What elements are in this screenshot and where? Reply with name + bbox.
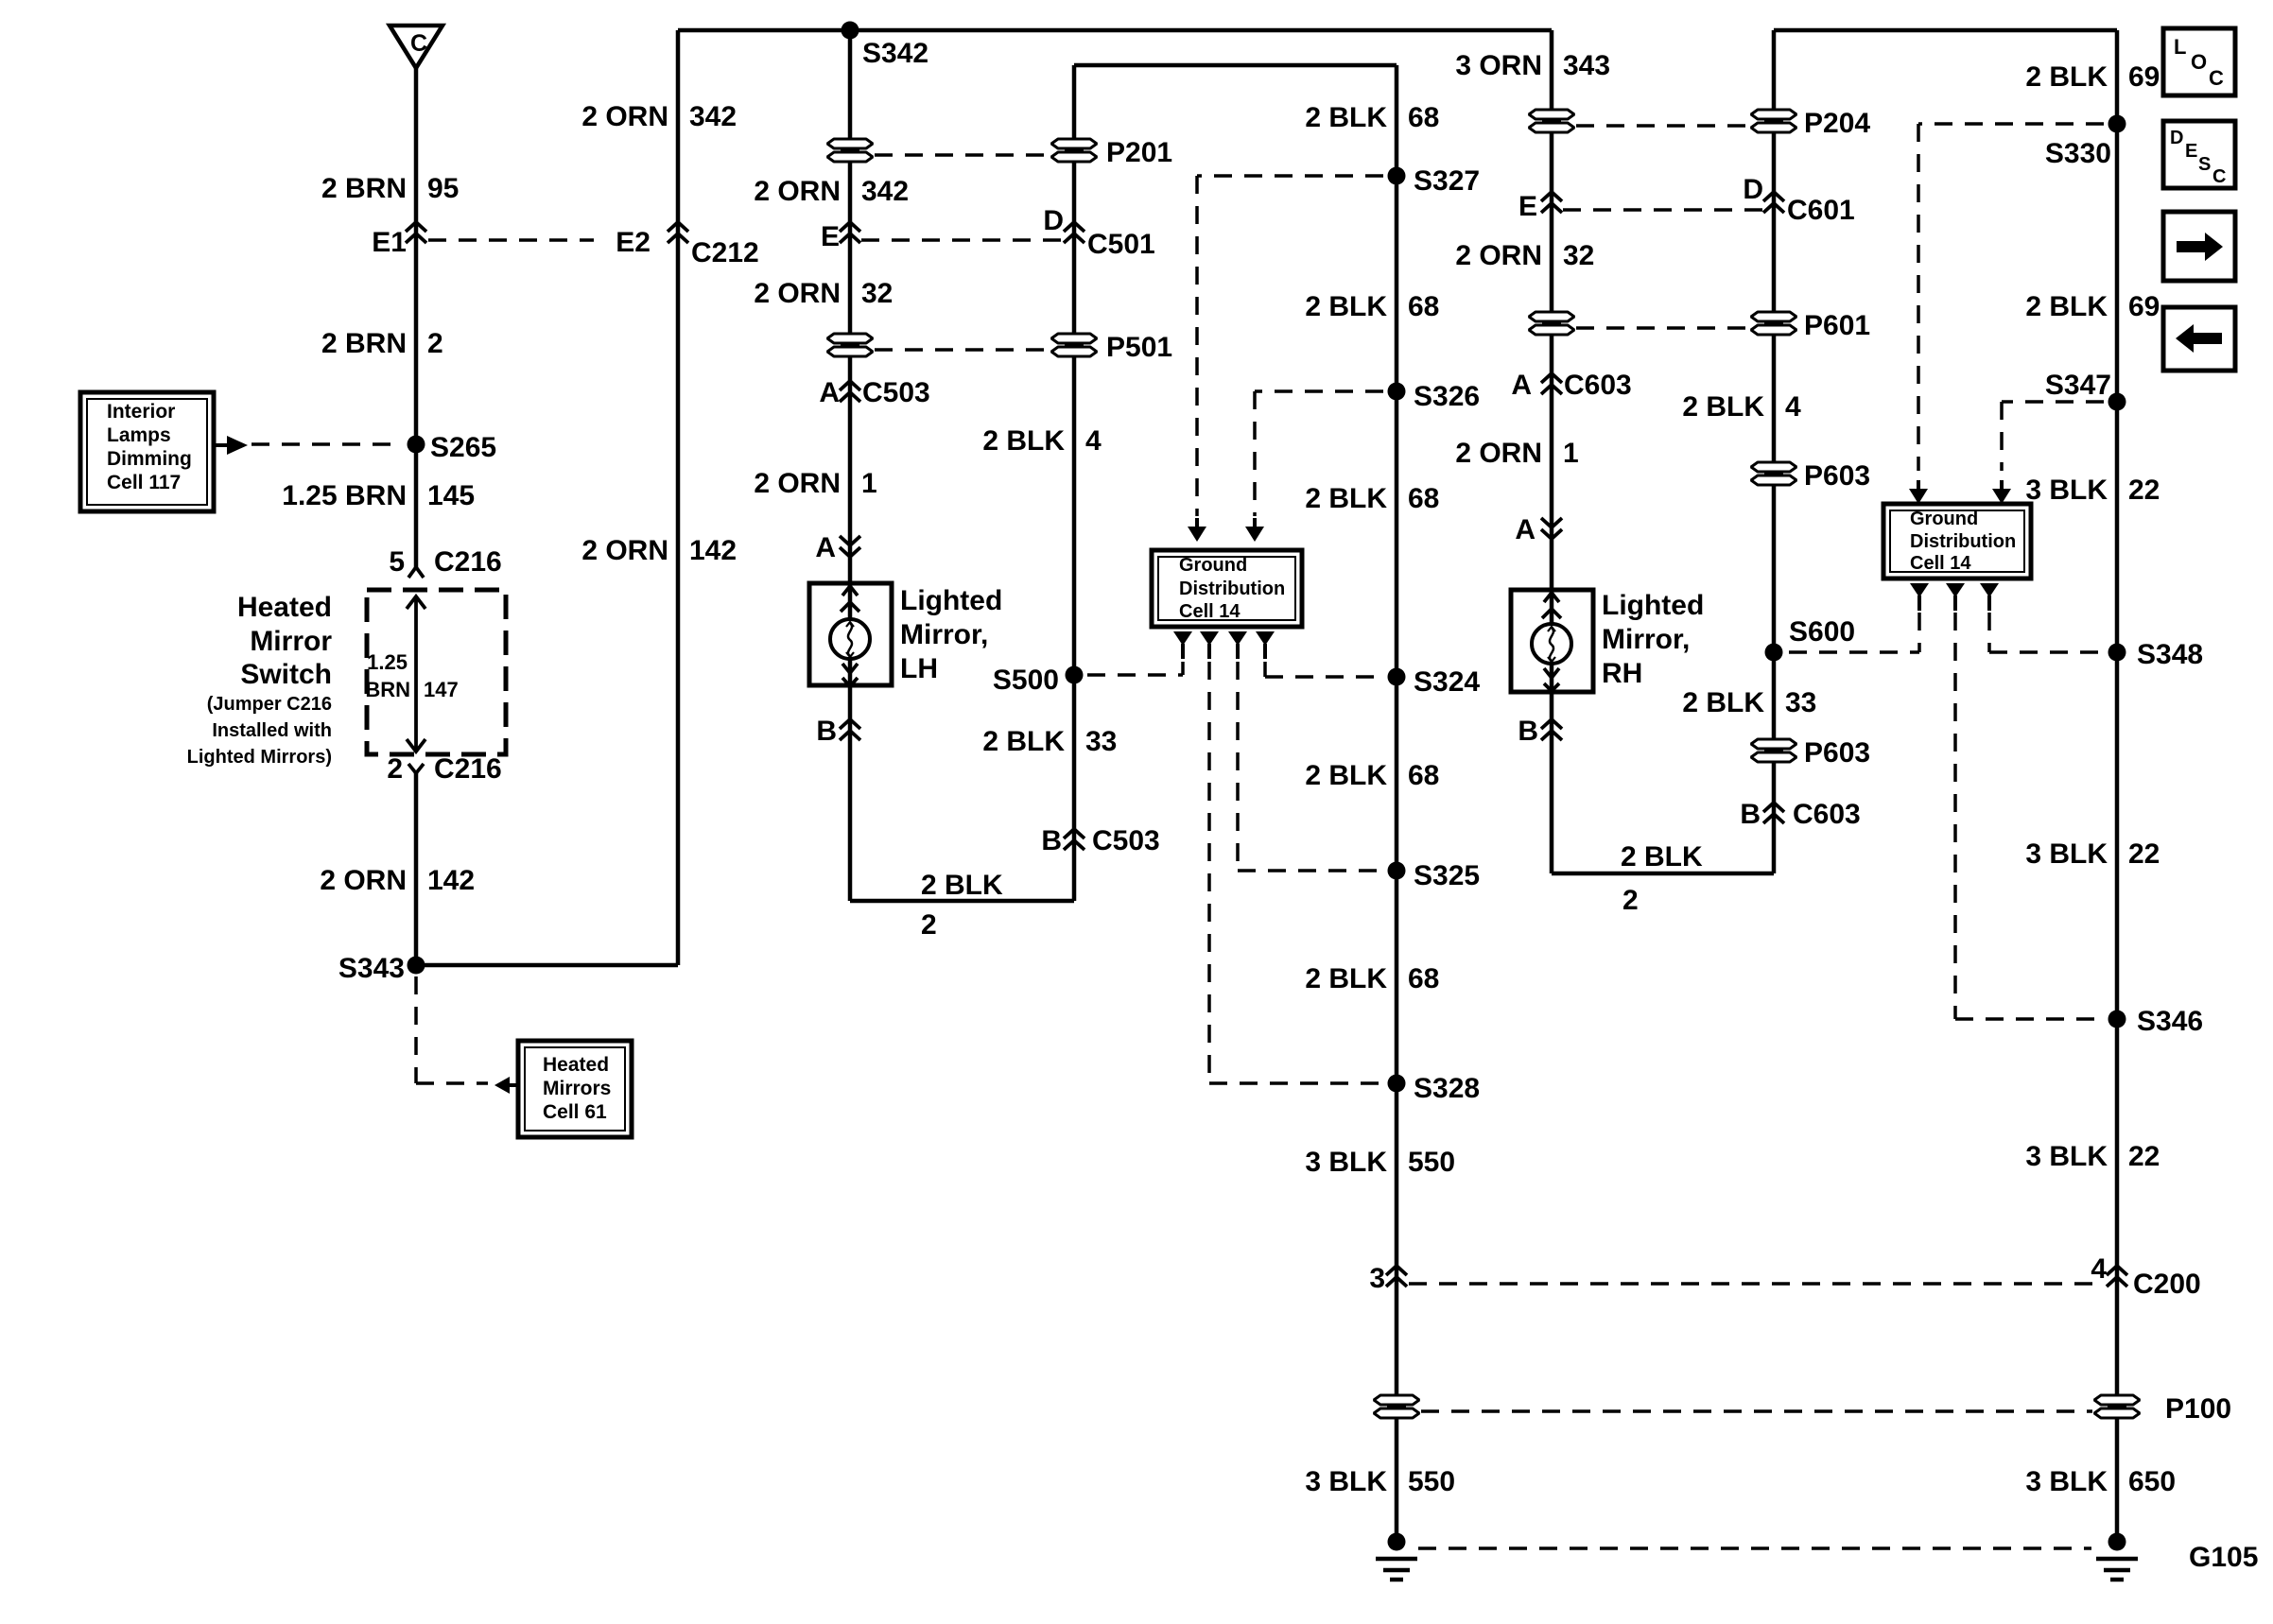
svg-text:E: E xyxy=(2185,141,2197,162)
svg-text:22: 22 xyxy=(2128,475,2160,506)
svg-text:2 ORN: 2 ORN xyxy=(1455,240,1542,271)
inline connector P100 right half xyxy=(2094,1395,2140,1418)
dashed link E to D C501 xyxy=(861,238,1061,242)
svg-text:142: 142 xyxy=(689,535,737,566)
svg-text:2 BLK: 2 BLK xyxy=(2025,61,2108,93)
svg-text:A: A xyxy=(819,377,840,408)
svg-text:P603: P603 xyxy=(1804,737,1870,769)
svg-text:C200: C200 xyxy=(2133,1269,2201,1300)
svg-text:B: B xyxy=(1740,799,1761,830)
svg-text:33: 33 xyxy=(1785,687,1816,718)
svg-text:S328: S328 xyxy=(1414,1073,1480,1104)
top bus wire right xyxy=(1774,28,2117,33)
svg-text:68: 68 xyxy=(1408,102,1439,133)
top link X4 to X5 xyxy=(1074,63,1397,68)
Ground Distribution Cell 14 box left xyxy=(1152,550,1302,627)
inline connector P603 xyxy=(1751,462,1796,485)
splice S600 xyxy=(1765,644,1783,662)
dashed lead to S265 xyxy=(252,442,403,446)
svg-text:147: 147 xyxy=(424,678,459,701)
svg-text:2 BLK: 2 BLK xyxy=(1305,483,1387,514)
svg-text:D: D xyxy=(2170,128,2183,148)
svg-text:2 ORN: 2 ORN xyxy=(320,865,407,896)
dashed link P100 xyxy=(1421,1409,2092,1413)
svg-text:Switch: Switch xyxy=(240,659,332,690)
svg-text:342: 342 xyxy=(861,176,909,207)
connector C216 pin 2 fork xyxy=(408,764,424,773)
dashed link C200 xyxy=(1409,1282,2105,1286)
dashed link P501 xyxy=(875,348,1048,352)
svg-text:22: 22 xyxy=(2128,838,2160,870)
svg-text:95: 95 xyxy=(427,173,459,204)
svg-text:32: 32 xyxy=(1563,240,1594,271)
svg-text:142: 142 xyxy=(427,865,475,896)
svg-text:2 BLK: 2 BLK xyxy=(1305,102,1387,133)
dashed from S326 xyxy=(1255,389,1383,393)
svg-text:2 BRN: 2 BRN xyxy=(321,328,407,359)
splice S346 xyxy=(2108,1011,2126,1028)
svg-text:2 BLK: 2 BLK xyxy=(921,870,1003,901)
svg-text:1.25: 1.25 xyxy=(367,650,408,674)
svg-text:22: 22 xyxy=(2128,1141,2160,1172)
Y arrows below left ground box xyxy=(1173,631,1192,659)
svg-text:Cell 61: Cell 61 xyxy=(543,1101,607,1123)
svg-text:E: E xyxy=(1518,191,1537,222)
inline connector P100 left half xyxy=(1374,1395,1419,1418)
dashed to S346 xyxy=(1953,613,1957,1019)
svg-text:Lighted Mirrors): Lighted Mirrors) xyxy=(187,747,332,768)
svg-text:C212: C212 xyxy=(691,237,759,268)
lamp symbol LH xyxy=(830,619,870,659)
svg-text:S: S xyxy=(2198,154,2211,175)
Lighted Mirror RH box xyxy=(1511,590,1593,692)
ground symbol left xyxy=(1376,1533,1417,1581)
splice S326 xyxy=(1388,383,1406,401)
svg-text:3 BLK: 3 BLK xyxy=(2025,1466,2108,1497)
splice S330 xyxy=(2108,115,2126,133)
inline connector P204 right half xyxy=(1751,110,1796,132)
svg-text:Mirror,: Mirror, xyxy=(1602,624,1690,655)
svg-text:4: 4 xyxy=(1085,425,1102,457)
connector C503 pin B xyxy=(1064,829,1084,850)
lamp symbol RH xyxy=(1532,624,1571,664)
svg-text:145: 145 xyxy=(427,480,475,511)
inline connector P601 right half xyxy=(1751,312,1796,335)
svg-text:3: 3 xyxy=(1369,1263,1385,1294)
svg-text:2 BLK: 2 BLK xyxy=(1621,841,1703,872)
svg-text:3 BLK: 3 BLK xyxy=(2025,1141,2108,1172)
svg-text:C: C xyxy=(2212,166,2226,187)
svg-text:S346: S346 xyxy=(2137,1006,2203,1037)
inline connector P201 right half xyxy=(1051,139,1097,162)
svg-text:S600: S600 xyxy=(1789,616,1855,648)
ground G105 xyxy=(2096,1533,2138,1581)
svg-text:B: B xyxy=(1041,825,1062,856)
dashed to S324 xyxy=(1263,662,1267,677)
svg-text:3 BLK: 3 BLK xyxy=(1305,1147,1387,1178)
wire 2 BLK 4/33 riser xyxy=(1072,65,1077,901)
svg-text:2 BLK: 2 BLK xyxy=(2025,291,2108,322)
jumper wire inside switch (double arrow) xyxy=(414,596,418,752)
off-page connector triangle C xyxy=(390,26,442,68)
svg-text:B: B xyxy=(816,716,837,747)
wire 2 ORN 342/32/1 down to Lighted Mirror LH xyxy=(848,30,853,901)
svg-text:2 BLK: 2 BLK xyxy=(1305,963,1387,994)
mirror connector pin B RH xyxy=(1541,719,1562,740)
svg-text:C601: C601 xyxy=(1787,195,1855,226)
svg-text:2 BLK: 2 BLK xyxy=(1305,291,1387,322)
svg-text:68: 68 xyxy=(1408,760,1439,791)
svg-text:(Jumper C216: (Jumper C216 xyxy=(207,694,332,715)
splice S324 xyxy=(1388,668,1406,686)
svg-text:P601: P601 xyxy=(1804,310,1870,341)
svg-text:S343: S343 xyxy=(338,953,405,984)
svg-text:68: 68 xyxy=(1408,963,1439,994)
Y arrows below right ground box xyxy=(1910,583,1929,611)
svg-text:C216: C216 xyxy=(434,546,502,578)
mirror connector pin A RH xyxy=(1541,518,1562,539)
mirror connector pin A xyxy=(840,536,860,557)
svg-text:Cell 14: Cell 14 xyxy=(1910,553,1971,574)
dashed to S348 xyxy=(1987,613,1991,652)
splice S265 xyxy=(408,436,425,454)
svg-text:C: C xyxy=(410,30,427,57)
connector C501 pin D xyxy=(1064,222,1084,243)
svg-text:2: 2 xyxy=(387,753,403,785)
dashed link P201 xyxy=(875,153,1048,157)
svg-text:S324: S324 xyxy=(1414,666,1480,698)
svg-text:C503: C503 xyxy=(1092,825,1160,856)
svg-text:Lighted: Lighted xyxy=(1602,590,1704,621)
svg-text:32: 32 xyxy=(861,278,893,309)
svg-text:P201: P201 xyxy=(1106,137,1172,168)
inline connector P204 left half xyxy=(1529,110,1574,132)
right arrow legend box xyxy=(2163,212,2235,281)
arrows into left ground box xyxy=(1188,518,1206,542)
svg-text:S347: S347 xyxy=(2045,370,2111,401)
svg-text:Ground: Ground xyxy=(1179,555,1247,576)
wire riser 2 ORN 342/142 xyxy=(676,30,681,965)
svg-text:1: 1 xyxy=(1563,438,1579,469)
svg-text:C501: C501 xyxy=(1087,229,1155,260)
svg-text:Mirror,: Mirror, xyxy=(900,619,988,650)
Ground Distribution Cell 14 box right xyxy=(1883,504,2031,579)
svg-text:550: 550 xyxy=(1408,1147,1455,1178)
arrows into right ground box xyxy=(1909,480,1928,504)
svg-text:69: 69 xyxy=(2128,291,2160,322)
Lighted Mirror LH box xyxy=(809,583,892,685)
svg-text:2 ORN: 2 ORN xyxy=(581,101,668,132)
inline connector P501 left half xyxy=(827,334,873,356)
svg-text:1.25 BRN: 1.25 BRN xyxy=(282,480,407,511)
svg-text:2 BLK: 2 BLK xyxy=(1682,687,1764,718)
svg-text:550: 550 xyxy=(1408,1466,1455,1497)
svg-text:B: B xyxy=(1518,716,1538,747)
svg-text:2 BRN: 2 BRN xyxy=(321,173,407,204)
wire S343 to right riser xyxy=(416,963,678,968)
svg-text:C603: C603 xyxy=(1793,799,1861,830)
svg-text:Ground: Ground xyxy=(1910,509,1978,529)
svg-text:E2: E2 xyxy=(616,227,651,258)
svg-text:2: 2 xyxy=(921,909,937,941)
dashed to S325 xyxy=(1236,662,1240,871)
splice S325 xyxy=(1388,862,1406,880)
DESC legend box xyxy=(2163,121,2235,188)
dashed from S327 xyxy=(1197,174,1383,178)
splice S328 xyxy=(1388,1075,1406,1093)
svg-text:C216: C216 xyxy=(434,753,502,785)
dashed S500 riser xyxy=(1181,662,1185,675)
svg-text:C: C xyxy=(2209,66,2224,90)
svg-text:1: 1 xyxy=(861,468,877,499)
svg-text:P501: P501 xyxy=(1106,332,1172,363)
svg-text:68: 68 xyxy=(1408,291,1439,322)
arrowhead to Heated Mirrors cell xyxy=(495,1077,510,1094)
inline connector P501 right half xyxy=(1051,334,1097,356)
wire 2 BLK 69 / 3 BLK 22 / 650 riser xyxy=(2115,30,2120,1533)
arrow from Interior Lamps box xyxy=(214,443,227,447)
svg-text:4: 4 xyxy=(2091,1253,2107,1285)
svg-text:LH: LH xyxy=(900,653,938,684)
svg-text:A: A xyxy=(1511,370,1532,401)
svg-text:A: A xyxy=(815,532,836,563)
connector C200 pin 4 xyxy=(2107,1266,2127,1287)
svg-text:C603: C603 xyxy=(1564,370,1632,401)
svg-text:L: L xyxy=(2174,35,2186,59)
connector C200 pin 3 xyxy=(1386,1266,1407,1287)
connector C503 pin A xyxy=(840,381,860,402)
mirror connector pin B xyxy=(840,719,860,740)
dashed link P204 xyxy=(1576,124,1747,128)
svg-text:S330: S330 xyxy=(2045,138,2111,169)
svg-text:2 ORN: 2 ORN xyxy=(754,176,841,207)
wire riser P204/C601/P601/P603/S600 xyxy=(1772,30,1777,873)
LOC legend box xyxy=(2163,28,2235,95)
connector C601 pin D xyxy=(1763,192,1784,213)
dashed to S328 xyxy=(1207,662,1211,1083)
svg-text:650: 650 xyxy=(2128,1466,2176,1497)
dashed lead S600 xyxy=(1789,650,1919,654)
svg-text:Mirror: Mirror xyxy=(250,626,332,657)
svg-text:Installed with: Installed with xyxy=(212,720,332,741)
splice S348 xyxy=(2108,644,2126,662)
dashed from S330 xyxy=(1918,122,2104,126)
svg-text:343: 343 xyxy=(1563,50,1610,81)
svg-text:2: 2 xyxy=(1622,885,1639,916)
svg-text:P100: P100 xyxy=(2165,1393,2231,1425)
dashed from S347 xyxy=(2002,400,2104,404)
splice S343 xyxy=(408,957,425,975)
svg-text:A: A xyxy=(1515,514,1536,545)
svg-text:2 ORN: 2 ORN xyxy=(754,468,841,499)
svg-text:G105: G105 xyxy=(2189,1542,2258,1573)
Heated Mirror Switch dashed outline xyxy=(367,590,506,754)
left arrow legend box xyxy=(2163,307,2235,371)
svg-text:3 ORN: 3 ORN xyxy=(1455,50,1542,81)
svg-text:2: 2 xyxy=(427,328,443,359)
top bus wire xyxy=(678,28,1552,33)
svg-text:S265: S265 xyxy=(430,432,496,463)
svg-text:P603: P603 xyxy=(1804,460,1870,492)
svg-text:C503: C503 xyxy=(862,377,930,408)
svg-text:Cell 14: Cell 14 xyxy=(1179,601,1241,622)
connector C212 pin E2 xyxy=(668,222,688,243)
svg-text:RH: RH xyxy=(1602,658,1642,689)
connector C601 pin E xyxy=(1541,192,1562,213)
dashed link E1 to E2 xyxy=(428,238,594,242)
dashed link E to D C601 xyxy=(1563,208,1762,212)
svg-text:2 ORN: 2 ORN xyxy=(754,278,841,309)
svg-text:68: 68 xyxy=(1408,483,1439,514)
svg-text:2 ORN: 2 ORN xyxy=(581,535,668,566)
svg-text:S325: S325 xyxy=(1414,860,1480,891)
svg-text:342: 342 xyxy=(689,101,737,132)
svg-text:33: 33 xyxy=(1085,726,1117,757)
svg-text:E1: E1 xyxy=(372,227,407,258)
splice S500 xyxy=(1066,666,1084,684)
splice S342 xyxy=(842,22,859,40)
svg-text:S500: S500 xyxy=(993,665,1059,696)
inline connector P601 left half xyxy=(1529,312,1574,335)
svg-text:BRN: BRN xyxy=(365,678,410,701)
svg-text:Heated: Heated xyxy=(237,592,332,623)
svg-text:Mirrors: Mirrors xyxy=(543,1078,611,1099)
wire 2 ORN 142 from C216 to S343 xyxy=(414,773,419,965)
svg-text:2 ORN: 2 ORN xyxy=(1455,438,1542,469)
svg-text:2 BLK: 2 BLK xyxy=(982,425,1065,457)
wire 2 BLK 2 LH loop xyxy=(850,899,1074,904)
wire 2 BLK 68 / 3 BLK 550 riser xyxy=(1395,65,1399,1533)
svg-text:2 BLK: 2 BLK xyxy=(1305,760,1387,791)
svg-text:S342: S342 xyxy=(862,38,928,69)
connector C603 pin B xyxy=(1763,803,1784,823)
svg-text:2 BLK: 2 BLK xyxy=(982,726,1065,757)
svg-text:3 BLK: 3 BLK xyxy=(2025,475,2108,506)
dashed link grounds xyxy=(1418,1546,2091,1550)
svg-text:Distribution: Distribution xyxy=(1910,531,2016,552)
svg-text:Dimming: Dimming xyxy=(107,448,192,470)
dashed lead from S343 to Heated Mirrors cell xyxy=(414,976,418,1083)
svg-text:Lighted: Lighted xyxy=(900,585,1002,616)
svg-text:D: D xyxy=(1043,205,1064,236)
svg-text:69: 69 xyxy=(2128,61,2160,93)
svg-text:E: E xyxy=(821,221,840,252)
svg-text:2 BLK: 2 BLK xyxy=(1682,391,1764,423)
svg-text:5: 5 xyxy=(389,546,405,578)
svg-text:S327: S327 xyxy=(1414,165,1480,197)
wire 3 ORN 343 riser xyxy=(1550,30,1554,873)
svg-text:Heated: Heated xyxy=(543,1054,609,1076)
connector C501 pin E xyxy=(840,222,860,243)
connector C212 pin E1 xyxy=(406,222,426,243)
Heated Mirrors Cell 61 box xyxy=(518,1041,632,1137)
connector C603 pin A xyxy=(1541,373,1562,394)
dashed lead S500 to ground distribution xyxy=(1087,673,1183,677)
dashed S600 riser xyxy=(1917,613,1921,652)
svg-text:S348: S348 xyxy=(2137,639,2203,670)
svg-text:Distribution: Distribution xyxy=(1179,579,1285,599)
wire 2 BRN 95/2 from triangle C down to connector C216 pin 5 xyxy=(414,68,419,567)
svg-text:3 BLK: 3 BLK xyxy=(2025,838,2108,870)
inline connector P201 left half xyxy=(827,139,873,162)
svg-text:3 BLK: 3 BLK xyxy=(1305,1466,1387,1497)
wire 2 BLK 2 RH loop xyxy=(1552,872,1774,876)
Interior Lamps Dimming Cell 117 box xyxy=(80,392,214,511)
dashed link P601 xyxy=(1576,326,1747,330)
svg-text:Cell 117: Cell 117 xyxy=(107,472,181,493)
svg-text:P204: P204 xyxy=(1804,108,1870,139)
svg-text:D: D xyxy=(1743,174,1763,205)
inline connector P603 second xyxy=(1751,739,1796,762)
svg-text:4: 4 xyxy=(1785,391,1801,423)
svg-text:Interior: Interior xyxy=(107,401,175,423)
connector C216 pin 5 fork xyxy=(408,567,424,578)
splice S327 xyxy=(1388,167,1406,185)
svg-text:O: O xyxy=(2191,50,2207,74)
svg-text:S326: S326 xyxy=(1414,381,1480,412)
svg-text:Lamps: Lamps xyxy=(107,424,171,446)
